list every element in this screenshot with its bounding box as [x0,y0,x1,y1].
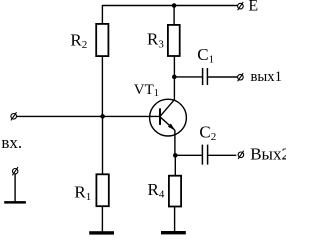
svg-text:Вых2: Вых2 [250,145,286,164]
transistor VT1 emitter arrowhead [168,124,175,131]
capacitor C1 [203,68,208,85]
wire R1 top lead [102,116,104,173]
transistor VT1 circle [150,99,187,136]
node emitter junction to C2/R4 [173,153,178,158]
capacitor C2 [202,145,207,165]
ground bar under R4 [161,231,186,234]
svg-text:E: E [248,0,258,15]
svg-text:R1: R1 [74,183,91,204]
resistor R4 [169,176,181,207]
wire input base [17,115,160,117]
node top junction (R3/collector column to rail) [172,3,177,8]
wire R2 top lead [101,5,103,24]
resistor R3 [168,25,180,56]
wire emitter vertical [174,130,176,155]
wire C2 left [175,154,202,156]
resistor R1 [96,174,108,206]
svg-text:вх.: вх. [1,133,22,152]
transistor VT1 base bar [159,108,161,125]
terminal ground input (circle with slash) [12,167,18,175]
wire R3 bottom lead / collector vertical [173,57,175,100]
node base divider junction [100,114,105,119]
node collector junction to C1 [172,75,177,80]
svg-text:R4: R4 [148,180,165,201]
svg-text:C1: C1 [197,45,214,66]
wire R3 top lead [173,5,175,24]
svg-text:вых1: вых1 [251,69,283,85]
wire C1 left [174,76,202,78]
resistor R2 [96,24,108,56]
wire top supply rail [102,5,237,7]
svg-text:R3: R3 [147,30,164,51]
wire R1 bottom lead [101,207,103,232]
ground bar input [4,201,26,204]
wire R2 bottom lead [101,57,103,117]
wire R4 top lead [174,155,176,175]
terminal Вых2 (circle with slash) [238,151,244,159]
terminal вх (circle with slash) [11,112,17,120]
terminal E (circle with slash) [238,2,244,10]
ground bar under R1 [89,231,114,234]
transistor VT1 collector stroke [160,99,174,116]
wire R4 bottom lead [174,207,176,232]
wire C1 right [208,76,237,78]
svg-text:C2: C2 [199,123,216,144]
svg-text:VT1: VT1 [134,82,159,99]
terminal вых1 (circle with slash) [238,73,244,81]
transistor VT1 emitter stroke [160,117,174,130]
wire C2 right [208,154,236,156]
wire ground input lead [14,174,16,201]
svg-text:R2: R2 [70,30,87,51]
